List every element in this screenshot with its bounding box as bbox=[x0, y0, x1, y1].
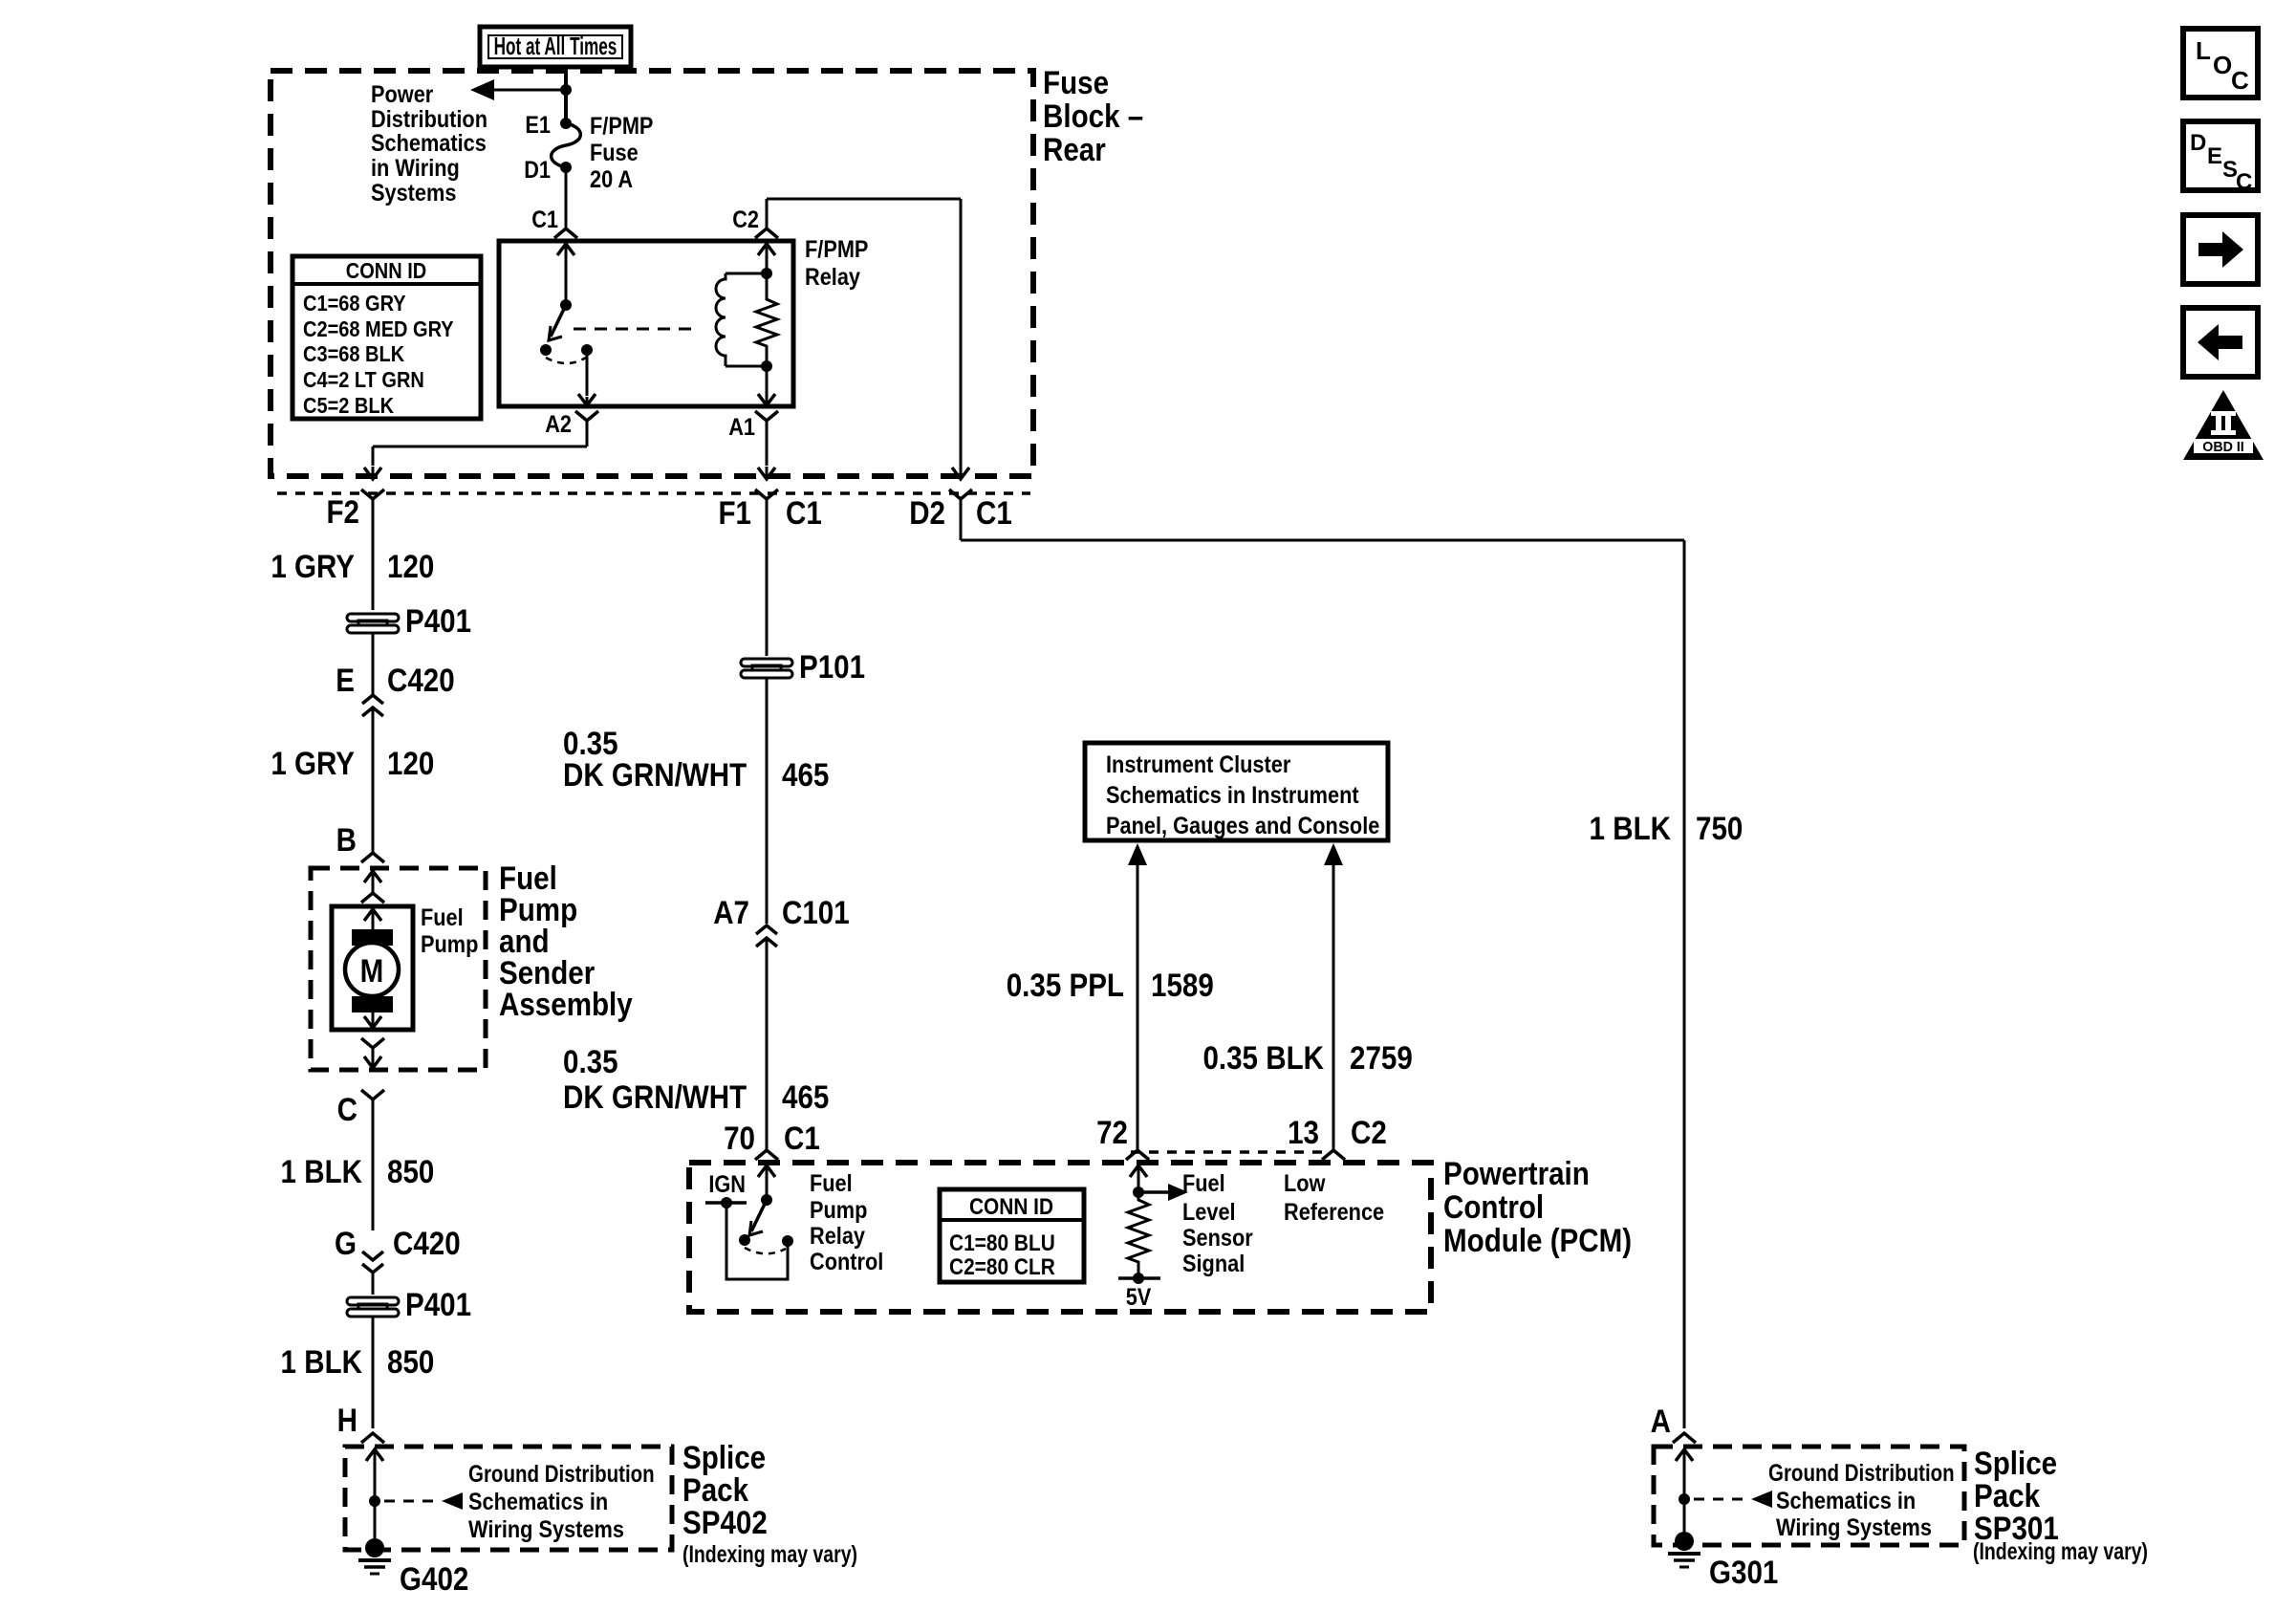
svg-text:G402: G402 bbox=[400, 1560, 468, 1597]
svg-text:Distribution: Distribution bbox=[371, 106, 487, 133]
fuel pump and sender assembly dashed box bbox=[311, 868, 486, 1070]
svg-text:DK GRN/WHT: DK GRN/WHT bbox=[563, 756, 747, 793]
svg-text:Assembly: Assembly bbox=[499, 986, 633, 1022]
svg-text:Ground Distribution: Ground Distribution bbox=[468, 1460, 655, 1487]
pin F2 exit chevron bbox=[361, 490, 384, 499]
svg-text:B: B bbox=[336, 821, 357, 858]
svg-text:F/PMP: F/PMP bbox=[805, 236, 868, 263]
PCM pull-up resistor to 5V bbox=[1128, 1192, 1149, 1278]
wire: low reference to instrument cluster (0.35 BLK 2759) bbox=[1332, 863, 1335, 1150]
svg-text:E1: E1 bbox=[525, 112, 551, 139]
splice SP402 dashed pointer to ground distribution bbox=[384, 1500, 438, 1503]
svg-text:Level: Level bbox=[1182, 1199, 1236, 1226]
svg-text:Panel, Gauges and Console: Panel, Gauges and Console bbox=[1106, 813, 1379, 839]
svg-text:0.35 PPL: 0.35 PPL bbox=[1007, 967, 1124, 1003]
PCM connector C2 dashed face line bbox=[1131, 1150, 1332, 1154]
svg-text:F/PMP: F/PMP bbox=[590, 113, 653, 140]
svg-text:Control: Control bbox=[810, 1249, 883, 1275]
PCM switch throw dashed arc bbox=[745, 1248, 786, 1253]
svg-text:D1: D1 bbox=[524, 157, 551, 184]
svg-text:(Indexing may vary): (Indexing may vary) bbox=[1973, 1538, 2148, 1565]
svg-text:Schematics in: Schematics in bbox=[1776, 1488, 1916, 1514]
wire: fuel level signal to instrument cluster (0.35 PPL 1589) bbox=[1137, 863, 1139, 1150]
svg-text:5V: 5V bbox=[1126, 1284, 1152, 1311]
PCM fuel pump relay control driver feed bbox=[766, 1165, 769, 1200]
svg-text:1589: 1589 bbox=[1151, 967, 1214, 1003]
svg-text:A2: A2 bbox=[545, 411, 572, 438]
svg-text:P401: P401 bbox=[405, 602, 471, 639]
svg-text:A: A bbox=[1651, 1403, 1671, 1439]
pin 13 chevron bbox=[1322, 1150, 1345, 1160]
node: PCM switch contact left bbox=[739, 1234, 750, 1246]
svg-text:0.35 BLK: 0.35 BLK bbox=[1202, 1039, 1324, 1076]
svg-text:Fuse: Fuse bbox=[590, 140, 639, 166]
svg-text:E: E bbox=[2207, 143, 2222, 169]
svg-text:C: C bbox=[337, 1091, 357, 1127]
wire: D2/C1 to splice pack SP301 (1 BLK 750) bbox=[960, 499, 963, 540]
svg-text:C1=68 GRY: C1=68 GRY bbox=[303, 291, 406, 316]
svg-text:E: E bbox=[336, 662, 355, 698]
svg-text:Relay: Relay bbox=[810, 1223, 865, 1250]
svg-text:O: O bbox=[2213, 51, 2232, 79]
svg-text:Rear: Rear bbox=[1043, 131, 1106, 167]
svg-text:750: 750 bbox=[1696, 810, 1743, 846]
svg-text:Splice: Splice bbox=[682, 1439, 766, 1475]
splice SP402 internal wire bbox=[374, 1448, 377, 1451]
svg-text:Pack: Pack bbox=[682, 1471, 748, 1508]
svg-text:D: D bbox=[2190, 130, 2206, 156]
node: relay switch pivot bbox=[560, 299, 572, 311]
svg-text:20 A: 20 A bbox=[590, 166, 633, 193]
relay coil winding bbox=[716, 273, 726, 366]
fuel pump motor return arrow bbox=[372, 1012, 375, 1028]
svg-text:Module (PCM): Module (PCM) bbox=[1443, 1222, 1632, 1258]
svg-text:Splice: Splice bbox=[1974, 1445, 2057, 1481]
splice pack SP301 dashed box bbox=[1654, 1447, 1964, 1545]
PCM driver switch arm bbox=[751, 1200, 767, 1231]
svg-text:C2=80 CLR: C2=80 CLR bbox=[949, 1254, 1055, 1280]
svg-text:P401: P401 bbox=[405, 1286, 471, 1322]
PCM fuel level sensor signal input bbox=[1137, 1165, 1140, 1192]
svg-text:Fuse: Fuse bbox=[1043, 64, 1109, 100]
svg-text:C5=2 BLK: C5=2 BLK bbox=[303, 393, 394, 419]
fuel pump motor brush bottom bbox=[352, 996, 393, 1012]
svg-text:1 BLK: 1 BLK bbox=[281, 1153, 362, 1189]
pin 72 chevron bbox=[1126, 1150, 1149, 1160]
svg-text:Block –: Block – bbox=[1043, 98, 1143, 134]
node: power distribution tap junction bbox=[560, 84, 572, 96]
connector P401 (lower) bbox=[347, 1297, 399, 1317]
svg-text:C420: C420 bbox=[387, 662, 455, 698]
svg-text:Reference: Reference bbox=[1284, 1199, 1384, 1226]
svg-text:C1: C1 bbox=[976, 494, 1012, 531]
svg-text:465: 465 bbox=[782, 756, 829, 793]
svg-text:850: 850 bbox=[387, 1343, 434, 1380]
svg-text:1 GRY: 1 GRY bbox=[271, 745, 355, 781]
fuel pump return leaving assembly bbox=[361, 1038, 384, 1048]
svg-text:H: H bbox=[337, 1402, 357, 1438]
svg-text:IGN: IGN bbox=[708, 1171, 746, 1198]
svg-text:Powertrain: Powertrain bbox=[1443, 1155, 1590, 1191]
node: splice SP402 junction bbox=[369, 1495, 380, 1507]
pin F1 exit chevron bbox=[755, 490, 778, 499]
svg-text:Pump: Pump bbox=[810, 1197, 867, 1224]
node: splice SP301 junction bbox=[1679, 1493, 1690, 1505]
wire: D2 drop to fuse block bottom bbox=[960, 468, 963, 479]
fuse block - rear dashed enclosure bbox=[271, 71, 1033, 476]
powertrain control module dashed box bbox=[689, 1163, 1431, 1312]
icon: OBD II triangle bbox=[2183, 390, 2264, 460]
fuel pump motor brush top bbox=[352, 929, 393, 946]
wire: relay A1 output inside fuse block bbox=[766, 241, 769, 273]
svg-text:M: M bbox=[360, 952, 384, 989]
svg-text:C1: C1 bbox=[531, 207, 558, 233]
svg-text:C1: C1 bbox=[784, 1120, 820, 1156]
fuse F/PMP 20 A element bbox=[560, 118, 572, 129]
instrument cluster reference box bbox=[1085, 743, 1388, 840]
icon: LOC box bbox=[2183, 29, 2258, 98]
svg-text:OBD II: OBD II bbox=[2202, 440, 2243, 455]
node: relay coil top junction bbox=[761, 268, 772, 279]
fuel level sense arrow to comparator bbox=[1138, 1190, 1172, 1194]
splice SP301 dashed pointer to ground distribution bbox=[1694, 1498, 1747, 1501]
svg-text:1 GRY: 1 GRY bbox=[271, 548, 355, 584]
svg-text:72: 72 bbox=[1096, 1114, 1128, 1150]
connector face dashed line below fuse block bbox=[277, 491, 1030, 495]
svg-text:70: 70 bbox=[724, 1120, 755, 1156]
node: PCM switch contact right bbox=[782, 1235, 793, 1247]
svg-text:0.35: 0.35 bbox=[563, 1043, 618, 1079]
svg-text:C4=2 LT GRN: C4=2 LT GRN bbox=[303, 367, 424, 393]
svg-text:A1: A1 bbox=[728, 414, 755, 441]
fuel pump motor circle M bbox=[345, 943, 399, 996]
svg-text:F1: F1 bbox=[718, 494, 751, 531]
svg-text:Ground Distribution: Ground Distribution bbox=[1768, 1459, 1955, 1486]
svg-text:Systems: Systems bbox=[371, 180, 456, 207]
svg-text:G: G bbox=[335, 1225, 357, 1261]
splice pack SP402 dashed box bbox=[345, 1447, 672, 1550]
node: fuel level sense junction bbox=[1133, 1186, 1144, 1198]
svg-text:Control: Control bbox=[1443, 1188, 1544, 1225]
svg-text:C1=80 BLU: C1=80 BLU bbox=[949, 1230, 1055, 1256]
svg-text:Relay: Relay bbox=[805, 264, 860, 291]
IGN loop wire to switch contact bbox=[726, 1203, 788, 1279]
svg-text:G301: G301 bbox=[1709, 1554, 1778, 1590]
svg-text:DK GRN/WHT: DK GRN/WHT bbox=[563, 1078, 747, 1115]
node: relay coil bottom junction bbox=[761, 360, 772, 372]
node: relay switch NO contact left bbox=[540, 344, 552, 356]
svg-text:1 BLK: 1 BLK bbox=[1590, 810, 1671, 846]
svg-text:in Wiring: in Wiring bbox=[371, 155, 460, 182]
svg-text:D2: D2 bbox=[909, 494, 945, 531]
fuel pump feed entering assembly bbox=[372, 870, 375, 873]
svg-text:(Indexing may vary): (Indexing may vary) bbox=[682, 1541, 857, 1568]
fuel pump motor feed arrow bbox=[372, 909, 375, 929]
svg-text:C1: C1 bbox=[786, 494, 822, 531]
svg-text:C2: C2 bbox=[732, 207, 759, 233]
wire: relay A2 output to F2 bbox=[586, 350, 589, 396]
relay internal resistor bbox=[756, 273, 777, 366]
svg-text:C: C bbox=[2236, 169, 2252, 195]
svg-text:2759: 2759 bbox=[1350, 1039, 1413, 1076]
svg-text:Power: Power bbox=[371, 81, 433, 108]
PCM CONN ID table bbox=[940, 1189, 1084, 1282]
svg-text:L: L bbox=[2196, 36, 2211, 65]
ground G301 bbox=[1675, 1532, 1694, 1551]
svg-text:120: 120 bbox=[387, 548, 434, 584]
svg-text:Schematics in: Schematics in bbox=[468, 1489, 608, 1515]
svg-text:SP402: SP402 bbox=[682, 1504, 768, 1540]
wire: arrow tap to Power Distribution Schematics bbox=[491, 89, 566, 92]
svg-text:Schematics: Schematics bbox=[371, 130, 487, 157]
svg-text:850: 850 bbox=[387, 1153, 434, 1189]
svg-text:A7: A7 bbox=[713, 894, 749, 930]
svg-text:C3=68 BLK: C3=68 BLK bbox=[303, 341, 405, 367]
svg-text:CONN ID: CONN ID bbox=[346, 258, 426, 284]
relay F/PMP case bbox=[499, 241, 793, 406]
svg-text:13: 13 bbox=[1288, 1114, 1319, 1150]
svg-text:F2: F2 bbox=[326, 493, 359, 530]
svg-text:P101: P101 bbox=[799, 648, 865, 685]
svg-text:Sensor: Sensor bbox=[1182, 1225, 1253, 1252]
IGN feed stub bbox=[705, 1201, 747, 1205]
icon: forward arrow box bbox=[2183, 215, 2258, 284]
splice SP301 internal wire bbox=[1683, 1448, 1686, 1451]
node: PCM driver switch pivot bbox=[761, 1194, 772, 1206]
relay switch common feed bbox=[565, 244, 568, 305]
svg-text:Wiring Systems: Wiring Systems bbox=[1776, 1514, 1932, 1541]
relay switch movable arm bbox=[551, 305, 566, 337]
svg-text:Signal: Signal bbox=[1182, 1251, 1245, 1277]
ground G402 bbox=[365, 1538, 384, 1557]
svg-text:Pump: Pump bbox=[421, 931, 478, 958]
svg-text:C2: C2 bbox=[1351, 1114, 1387, 1150]
svg-text:Pack: Pack bbox=[1974, 1477, 2040, 1513]
relay coil actuation dashed link bbox=[574, 328, 695, 331]
power feed label box: Hot at All Times bbox=[480, 27, 631, 67]
svg-text:Hot at All Times: Hot at All Times bbox=[494, 32, 617, 60]
5V reference rail bbox=[1118, 1276, 1160, 1280]
svg-text:Low: Low bbox=[1284, 1170, 1326, 1197]
svg-text:120: 120 bbox=[387, 745, 434, 781]
CONN ID table (fuse block) bbox=[292, 256, 481, 419]
svg-text:465: 465 bbox=[782, 1078, 829, 1115]
svg-text:Fuel: Fuel bbox=[810, 1170, 853, 1197]
svg-text:Instrument Cluster: Instrument Cluster bbox=[1106, 751, 1290, 778]
svg-text:C2=68 MED GRY: C2=68 MED GRY bbox=[303, 316, 454, 342]
node: relay switch NC contact right bbox=[581, 344, 593, 356]
fuel pump motor case bbox=[332, 906, 413, 1030]
wire: battery feed from Hot at All Times to fuse bbox=[564, 67, 568, 123]
connector P401 (upper) bbox=[347, 614, 399, 633]
pin D2 exit chevron bbox=[949, 490, 972, 499]
svg-text:C420: C420 bbox=[393, 1225, 461, 1261]
svg-text:CONN ID: CONN ID bbox=[969, 1194, 1053, 1220]
svg-text:Schematics in Instrument: Schematics in Instrument bbox=[1106, 782, 1359, 809]
svg-text:Fuel: Fuel bbox=[421, 904, 464, 931]
icon: DESC box bbox=[2183, 121, 2258, 190]
relay switch throw dashed arc bbox=[546, 358, 586, 363]
connector P101 bbox=[741, 659, 792, 678]
icon: back arrow box bbox=[2183, 308, 2258, 377]
svg-text:C101: C101 bbox=[782, 894, 850, 930]
svg-text:C: C bbox=[2231, 66, 2249, 95]
svg-text:Wiring Systems: Wiring Systems bbox=[468, 1516, 624, 1543]
svg-text:Fuel: Fuel bbox=[1182, 1170, 1225, 1197]
svg-text:1 BLK: 1 BLK bbox=[281, 1343, 362, 1380]
